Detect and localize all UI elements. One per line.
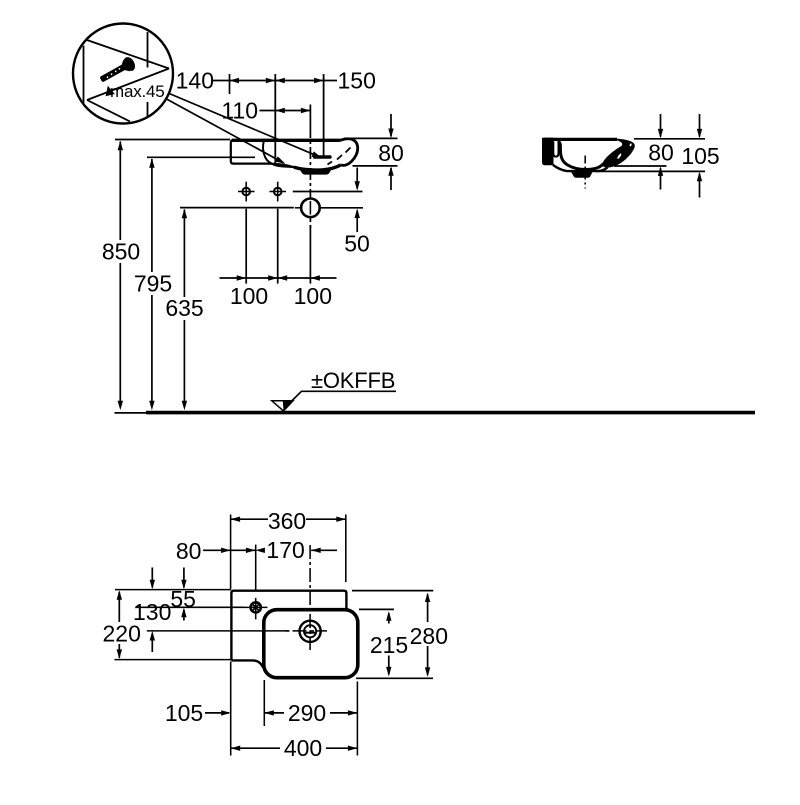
svg-text:80: 80	[648, 140, 674, 166]
svg-text:110: 110	[221, 98, 258, 124]
dim 140/150 line	[213, 74, 337, 94]
leader line 1	[168, 93, 317, 156]
bottom extension lines	[231, 662, 358, 756]
side view rim band sliver	[617, 153, 622, 160]
side 105 bottom reference line	[597, 170, 705, 172]
dim 850 line	[119, 142, 121, 405]
dim 795 line	[151, 159, 153, 404]
basin front view top edge	[232, 139, 341, 142]
drain centre line front	[309, 126, 311, 231]
plan fixing hole	[244, 598, 268, 620]
svg-text:215: 215	[370, 632, 408, 658]
basin front view bowl bottom thick	[294, 165, 341, 170]
max.45 pointer triangle	[106, 86, 115, 96]
50 dim reference lines	[293, 191, 363, 193]
side 80 dim arrows	[660, 114, 662, 137]
150 extension line	[323, 74, 325, 156]
plan outer outline	[231, 591, 346, 661]
side 80 bottom reference line	[614, 165, 667, 167]
svg-text:100: 100	[294, 283, 332, 309]
front 80 dim reference lines	[344, 137, 398, 139]
svg-text:400: 400	[284, 735, 322, 761]
side view hanger slot	[553, 142, 558, 157]
svg-text:150: 150	[338, 68, 376, 94]
dim 400	[231, 747, 280, 749]
dim 635 line	[183, 210, 185, 405]
svg-text:105: 105	[681, 143, 719, 169]
side view rim nose and band	[602, 138, 635, 167]
plan left reference lines	[115, 590, 290, 660]
dim 290	[264, 712, 284, 714]
dim 360 line	[231, 515, 346, 590]
plan bowl	[264, 610, 358, 678]
tap centre extension line	[274, 74, 276, 166]
dim 110 line	[260, 105, 311, 127]
dim 280	[427, 594, 429, 622]
plan drain centre lines	[285, 630, 327, 632]
dim 280 reference line	[352, 590, 433, 592]
drain circle front	[301, 199, 320, 218]
plan ledge step	[231, 660, 267, 672]
plan drain	[300, 621, 321, 642]
dim 100/100 line	[220, 277, 337, 279]
side 105 dim arrows	[699, 114, 701, 137]
svg-text:850: 850	[102, 239, 140, 265]
level symbol triangle	[272, 401, 293, 411]
svg-text:80: 80	[176, 538, 202, 564]
plan tap extension line	[255, 545, 257, 592]
side view top edge	[542, 138, 617, 141]
floor line	[115, 412, 147, 414]
dim 80/170 line	[203, 549, 337, 551]
side view wall block	[542, 138, 554, 166]
svg-text:170: 170	[266, 537, 304, 563]
svg-text:220: 220	[103, 621, 141, 647]
svg-text:100: 100	[230, 283, 268, 309]
screw symbol	[97, 55, 137, 86]
overflow slot bar front	[315, 155, 331, 158]
dim 795 reference line	[147, 156, 255, 158]
side view bowl wall	[558, 141, 604, 170]
side 80/105 top reference line	[634, 138, 705, 140]
svg-text:105: 105	[165, 700, 203, 726]
svg-text:280: 280	[410, 623, 448, 649]
svg-text:635: 635	[165, 295, 203, 321]
basin front hidden rim dashes	[328, 148, 351, 165]
dim 50 arrows	[356, 168, 358, 189]
fixing hole right front	[270, 182, 287, 202]
svg-text:795: 795	[134, 271, 172, 297]
basin front inner bowl arc	[263, 140, 295, 167]
basin front drain boss	[299, 169, 332, 175]
dim 850 reference line	[115, 139, 230, 141]
fixing hole left front	[238, 182, 255, 202]
svg-text:360: 360	[268, 508, 306, 534]
basin front right rim	[341, 139, 358, 166]
svg-text:max.45: max.45	[110, 82, 165, 101]
side view outer bottom	[553, 165, 608, 171]
dim 55	[183, 568, 185, 588]
svg-text:80: 80	[378, 140, 404, 166]
dim 635 reference line	[180, 207, 294, 209]
svg-text:50: 50	[344, 231, 370, 257]
extension lines to 100 dims	[246, 209, 310, 284]
basin front view left and bottom	[231, 140, 310, 170]
svg-text:290: 290	[288, 700, 326, 726]
svg-text:140: 140	[176, 68, 214, 94]
dim 105	[205, 712, 229, 714]
dim 215 reference lines	[359, 608, 394, 610]
dim 130	[151, 568, 153, 588]
dim 215	[388, 613, 390, 624]
detail circle	[73, 24, 173, 124]
side view drain centre line	[584, 156, 586, 189]
svg-text:±OKFFB: ±OKFFB	[311, 368, 395, 393]
front 80 dim arrows	[390, 114, 392, 137]
dim 220	[118, 592, 120, 622]
side view drain boss	[571, 171, 594, 178]
level symbol leader	[285, 391, 397, 408]
leader line 2	[167, 99, 281, 161]
